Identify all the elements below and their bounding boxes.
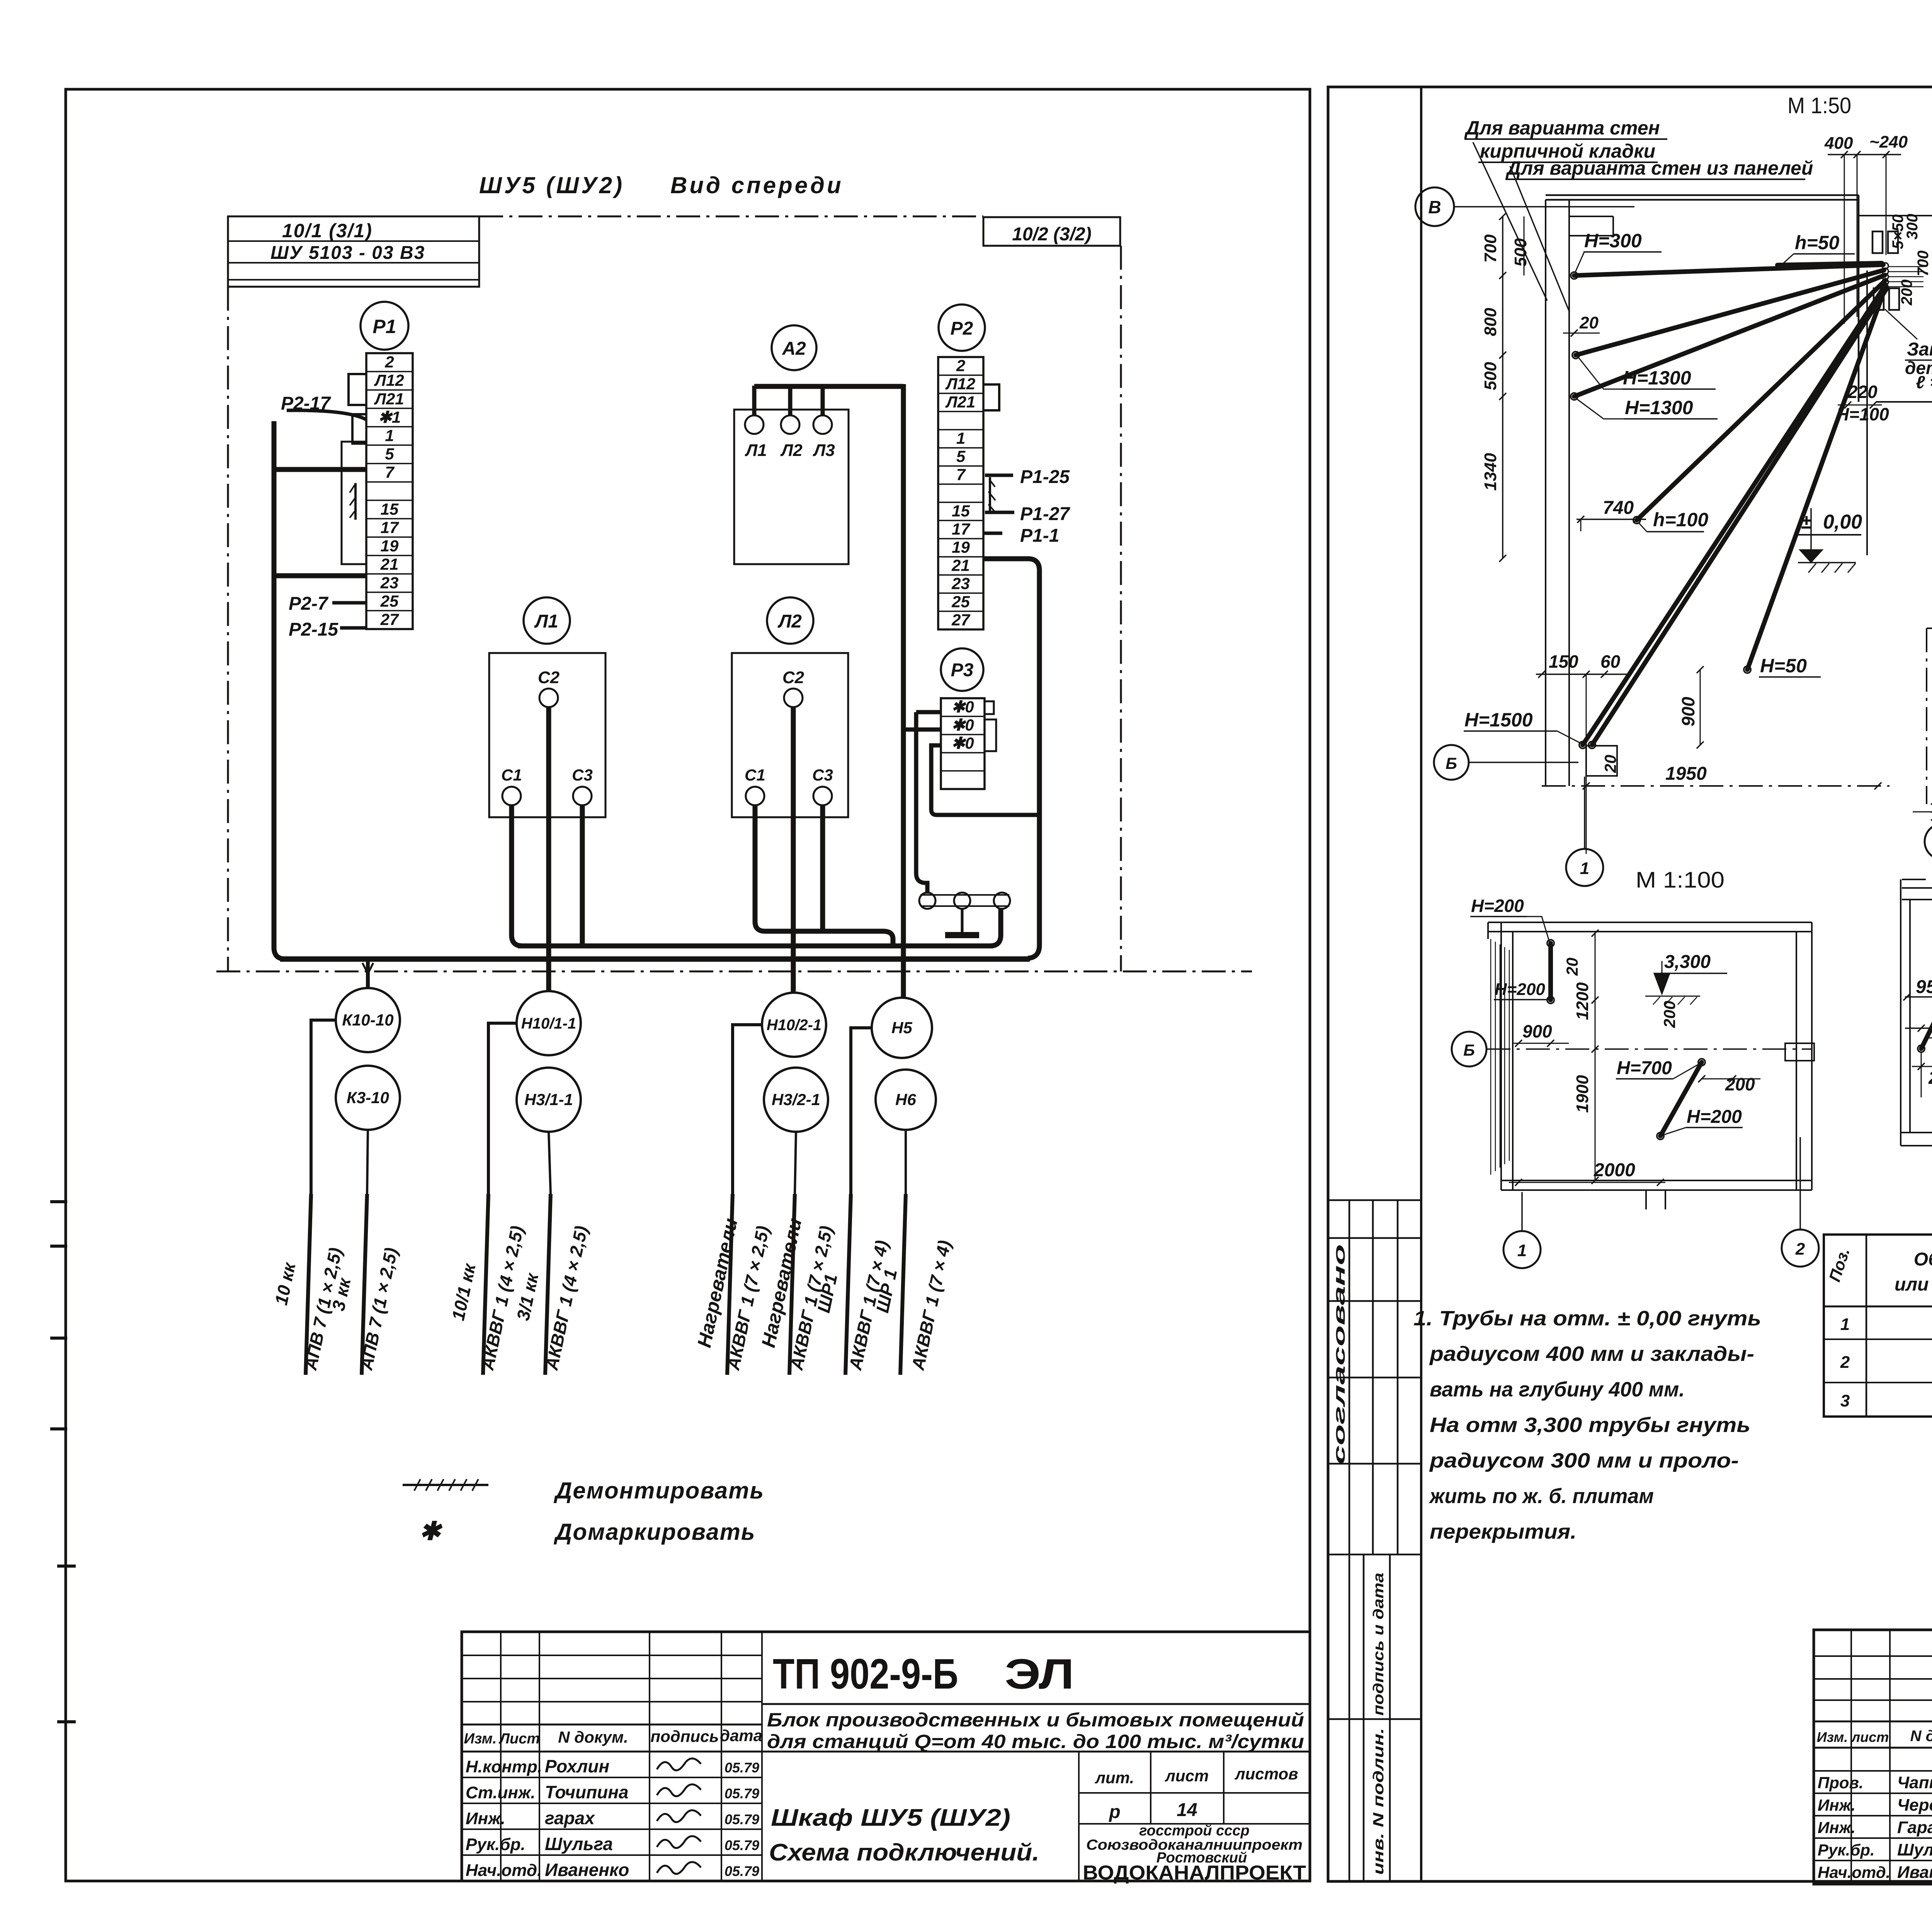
svg-text:h=100: h=100 [1653, 509, 1708, 531]
notes paragraph [1413, 1307, 1761, 1543]
svg-text:подпись: подпись [651, 1727, 719, 1745]
svg-text:✱: ✱ [419, 1517, 443, 1545]
svg-text:радиусом 300 мм и проло-: радиусом 300 мм и проло- [1429, 1449, 1739, 1472]
lamp unit A2 box [734, 410, 849, 564]
svg-text:Рук.бр.: Рук.бр. [466, 1835, 526, 1854]
svg-text:листов: листов [1235, 1765, 1298, 1783]
svg-text:1: 1 [385, 427, 394, 445]
M1:100 level 3,300 [1645, 952, 1727, 1005]
pipe H=1300 b [1574, 275, 1885, 396]
svg-text:Лист: Лист [498, 1731, 540, 1747]
M1:100 grid circle B [1452, 1032, 1486, 1066]
svg-text:Нач.отд.: Нач.отд. [466, 1861, 542, 1880]
svg-text:✱0: ✱0 [951, 698, 974, 716]
svg-text:Н=50: Н=50 [1760, 655, 1807, 677]
starter Л1 label circle [524, 597, 570, 644]
ground terminal bar [920, 894, 1009, 896]
svg-text:300: 300 [1904, 214, 1921, 240]
P1 connector bracket rows *1-1 [352, 414, 366, 444]
svg-text:05.79: 05.79 [724, 1863, 759, 1879]
svg-text:200: 200 [1725, 1074, 1755, 1094]
right title block texts [1817, 1650, 1932, 1886]
svg-text:ТП 902-9-Б: ТП 902-9-Б [773, 1650, 958, 1698]
M1:100 walls [1488, 922, 1812, 1209]
cable conductor H3/2-1 drop [789, 1194, 795, 1375]
lamp L3 [813, 415, 832, 434]
grid circles 1,2 below M1:100 [1503, 1137, 1819, 1268]
svg-text:Л2: Л2 [780, 441, 803, 460]
starter Л2 label circle [767, 597, 813, 644]
svg-text:Р1-1: Р1-1 [1020, 526, 1059, 546]
svg-text:Закладная: Закладная [1907, 339, 1932, 360]
M1:100 dims [1509, 930, 1760, 1186]
svg-text:Для варианта стен из панелей: Для варианта стен из панелей [1505, 157, 1813, 179]
svg-text:Инж.: Инж. [1818, 1796, 1855, 1814]
svg-text:500: 500 [1481, 362, 1500, 390]
svg-text:На отм 3,300 трубы гнуть: На отм 3,300 трубы гнуть [1430, 1413, 1750, 1437]
cabinet enclosure dash-dot boundary [479, 216, 983, 218]
cable K3-10 tail [367, 1130, 368, 1194]
relay P1 label circle [361, 302, 408, 350]
svg-text:ВОДОКАНАЛПРОЕКТ: ВОДОКАНАЛПРОЕКТ [1083, 1862, 1306, 1884]
svg-text:Точипина: Точипина [545, 1782, 629, 1802]
svg-text:С3: С3 [812, 766, 833, 784]
svg-text:17: 17 [952, 520, 970, 538]
terminal strip P2 [938, 357, 983, 629]
svg-text:1. Трубы на отм. ± 0,00 гну: 1. Трубы на отм. ± 0,00 гнуть [1413, 1307, 1761, 1330]
cable conductor H5 stub [845, 1194, 851, 1375]
middle detail boundary [1913, 628, 1932, 903]
svg-text:Р1: Р1 [372, 316, 396, 337]
svg-text:ШУ 5103 - 03 В3: ШУ 5103 - 03 В3 [270, 243, 425, 263]
svg-text:1340: 1340 [1481, 453, 1500, 491]
svg-text:900: 900 [1522, 1021, 1552, 1041]
svg-text:перекрытия.: перекрытия. [1430, 1520, 1577, 1543]
soglasovano table [1328, 1200, 1421, 1554]
svg-text:1950: 1950 [1665, 764, 1707, 784]
svg-text:2: 2 [956, 357, 965, 375]
svg-text:Блок производственных и бытовы: Блок производственных и бытовых помещени… [767, 1709, 1304, 1731]
svg-text:200: 200 [1898, 279, 1915, 306]
cable conductor H3/1-1 drop [545, 1194, 551, 1375]
cable conductor H10/1-1 stub [483, 1194, 488, 1375]
svg-text:05.79: 05.79 [724, 1786, 759, 1801]
svg-text:гарах: гарах [545, 1808, 595, 1828]
podpis i data strip [1328, 1554, 1421, 1881]
wire B vertical to ground bus [916, 712, 927, 894]
svg-text:Л21: Л21 [374, 389, 404, 408]
svg-text:Черепанова: Черепанова [1897, 1796, 1932, 1815]
svg-text:или тип изделия: или тип изделия [1895, 1274, 1932, 1295]
svg-text:согласовано: согласовано [1330, 1244, 1348, 1464]
svg-text:Р2-15: Р2-15 [289, 619, 338, 640]
svg-text:Ст.инж.: Ст.инж. [466, 1783, 536, 1802]
svg-text:Р1-25: Р1-25 [1020, 467, 1070, 487]
svg-text:05.79: 05.79 [724, 1837, 759, 1853]
svg-text:М 1:50: М 1:50 [1787, 93, 1851, 118]
svg-text:✱1: ✱1 [378, 408, 401, 426]
terminal strip P1 [366, 353, 413, 629]
svg-text:Схема подключений.: Схема подключений. [769, 1839, 1039, 1866]
bus1 horizontal [518, 944, 993, 949]
pipe h=100 [1637, 280, 1886, 520]
svg-text:Демонтировать: Демонтировать [553, 1478, 764, 1503]
svg-text:лист: лист [1851, 1729, 1889, 1745]
svg-text:инв. N подлин.: инв. N подлин. [1371, 1728, 1387, 1875]
svg-text:Иваненко: Иваненко [545, 1860, 629, 1880]
svg-text:С2: С2 [782, 668, 804, 687]
svg-text:Н=300: Н=300 [1584, 230, 1642, 252]
embed plates right side detail1 [1824, 133, 1932, 424]
junction arrow from bus to K10-10 [366, 959, 370, 988]
svg-text:2: 2 [1795, 1240, 1805, 1259]
svg-text:2: 2 [384, 353, 394, 371]
svg-text:Рук.бр.: Рук.бр. [1818, 1841, 1875, 1859]
cable circle H5 [872, 998, 932, 1058]
demount hatch on P2 side [988, 479, 995, 512]
detail1 walls [1546, 195, 1932, 786]
lamp L1 [745, 415, 764, 434]
svg-text:h=50: h=50 [1795, 232, 1840, 253]
svg-text:Вид спереди: Вид спереди [670, 172, 844, 198]
pipe h=50 top [1777, 263, 1882, 265]
svg-text:7: 7 [956, 466, 966, 484]
svg-text:Н10/2-1: Н10/2-1 [767, 1017, 821, 1034]
svg-text:Н=700: Н=700 [1617, 1058, 1672, 1078]
wire A2 bus riser to H5 [901, 384, 906, 998]
svg-text:Р1-27: Р1-27 [1020, 504, 1070, 524]
svg-text:17: 17 [381, 519, 399, 537]
svg-text:±: ± [1801, 511, 1812, 533]
svg-text:05.79: 05.79 [724, 1760, 759, 1776]
svg-text:✱0: ✱0 [951, 716, 974, 734]
pipe long pipe a [1583, 285, 1886, 745]
cable circle K10-10 [336, 988, 400, 1052]
wire stub P1-27 [985, 511, 1014, 514]
detail1 bottom dash-dot [1542, 785, 1889, 787]
svg-text:21: 21 [951, 556, 970, 575]
svg-text:Р2-7: Р2-7 [289, 594, 329, 614]
svg-text:10/2 (3/2): 10/2 (3/2) [1012, 224, 1091, 245]
ground symbol [961, 909, 964, 933]
svg-text:Инж.: Инж. [466, 1809, 505, 1828]
wire into P1 row 21 [274, 573, 366, 578]
cable circle K3-10 [336, 1066, 400, 1130]
bus terminal circle 3 [994, 893, 1010, 909]
svg-text:1: 1 [1840, 1315, 1850, 1334]
svg-text:Л12: Л12 [374, 371, 404, 389]
svg-text:25: 25 [380, 592, 399, 610]
svg-text:3,300: 3,300 [1664, 952, 1711, 972]
svg-text:N докум.: N докум. [558, 1728, 628, 1746]
P2 connector bracket [983, 384, 999, 410]
svg-text:А2: А2 [782, 338, 806, 359]
svg-text:Н=200: Н=200 [1495, 980, 1545, 999]
pipe H=1300 a [1576, 270, 1884, 355]
right sheet outer frame [1328, 87, 1932, 1881]
wire L1-C3 drop [580, 805, 585, 946]
svg-text:Л12: Л12 [945, 375, 976, 393]
demount hatch on P1 bracket [350, 485, 356, 518]
svg-text:Л21: Л21 [945, 393, 976, 411]
cable circle H6 [876, 1070, 936, 1130]
detail1 note dlya varianta sten kirpichnoy kladki [1464, 117, 1667, 162]
svg-text:200: 200 [1660, 1001, 1679, 1028]
svg-text:23: 23 [380, 573, 399, 592]
starter Л1 box [489, 653, 605, 817]
cabinet header box 10/2 [983, 217, 1120, 246]
centering marks on left frame [57, 1565, 76, 1568]
svg-text:Р3: Р3 [951, 660, 974, 680]
svg-text:Изм.: Изм. [1817, 1729, 1848, 1745]
P1 side bracket box rows 5-19 [342, 442, 366, 564]
svg-text:5: 5 [956, 447, 966, 466]
dims bottom detail1 [1536, 651, 1881, 854]
relay P3 label circle [941, 648, 983, 691]
svg-text:1: 1 [1517, 1241, 1527, 1260]
svg-text:2000: 2000 [1594, 1160, 1635, 1180]
svg-text:10/1 (3/1): 10/1 (3/1) [282, 220, 372, 241]
svg-text:500: 500 [1511, 238, 1530, 267]
svg-text:ℓ = 200 мм: ℓ = 200 мм [1916, 372, 1932, 392]
left title block texts [464, 1650, 1306, 1884]
svg-text:Н=1300: Н=1300 [1623, 367, 1691, 389]
svg-text:р: р [1108, 1802, 1120, 1822]
svg-text:Н6: Н6 [895, 1090, 916, 1109]
cable circle H3/1-1 [517, 1068, 581, 1132]
lamp unit A2 label circle [772, 325, 816, 370]
detail4 pipe top-left [1912, 889, 1932, 1097]
svg-text:700: 700 [1481, 234, 1500, 263]
svg-text:~240: ~240 [1869, 133, 1908, 151]
svg-text:15: 15 [952, 502, 970, 520]
svg-text:Н=1500: Н=1500 [1464, 709, 1533, 731]
left sheet frame [66, 89, 1310, 1881]
corner embed box [1586, 746, 1617, 776]
P3 connector hooks [985, 701, 994, 714]
pipe labels detail1 [1464, 230, 1855, 743]
svg-text:Н=200: Н=200 [1471, 896, 1524, 916]
relay P2 label circle [939, 304, 985, 351]
svg-text:900: 900 [1678, 697, 1698, 726]
grid circle 2 middle [1925, 824, 1932, 859]
svg-text:800: 800 [1481, 308, 1500, 336]
svg-text:Н.контр.: Н.контр. [466, 1757, 542, 1776]
svg-text:220: 220 [1847, 382, 1878, 402]
svg-text:60: 60 [1600, 651, 1621, 672]
svg-text:Н5: Н5 [891, 1019, 912, 1037]
svg-text:Чапны: Чапны [1897, 1773, 1932, 1792]
cabinet header table 10/1 [228, 216, 479, 287]
svg-text:госстрой ссср: госстрой ссср [1139, 1823, 1249, 1839]
lamp L2 [781, 415, 799, 434]
cable circle H3/2-1 [764, 1068, 828, 1132]
svg-text:Гарах: Гарах [1897, 1818, 1932, 1837]
svg-text:для станций Q=от 40 тыс. до 10: для станций Q=от 40 тыс. до 100 тыс. м³/… [767, 1731, 1304, 1752]
svg-text:✱0: ✱0 [951, 734, 974, 752]
svg-text:Рохлин: Рохлин [545, 1756, 609, 1776]
svg-text:К3-10: К3-10 [347, 1088, 389, 1107]
M1:100 door block [1785, 1043, 1814, 1061]
svg-text:жить по ж. б. плитам: жить по ж. б. плитам [1429, 1485, 1654, 1508]
svg-text:М 1:100: М 1:100 [1636, 867, 1725, 893]
svg-text:1900: 1900 [1573, 1075, 1592, 1113]
svg-text:14: 14 [1177, 1800, 1197, 1820]
svg-text:5: 5 [385, 445, 394, 463]
svg-text:N докум.: N докум. [1910, 1728, 1932, 1745]
detail4 walls [1901, 879, 1932, 1146]
level mark 0.00 detail1 [1797, 508, 1862, 573]
grid circle 1 detail1 [1584, 777, 1585, 849]
svg-text:700: 700 [1915, 250, 1932, 276]
svg-text:подпись и дата: подпись и дата [1371, 1573, 1387, 1716]
detail1 note dlya varianta sten iz paneley [1505, 157, 1813, 179]
fan knot circles [1882, 263, 1888, 269]
svg-text:15: 15 [381, 500, 399, 518]
A2 supply bus wire [754, 384, 903, 389]
svg-text:Н=1300: Н=1300 [1625, 397, 1693, 418]
detail4 bottom walls [1901, 1127, 1932, 1184]
cable H5 left stub [851, 1028, 872, 1194]
svg-text:ЭЛ: ЭЛ [1005, 1650, 1074, 1698]
parts table rows [1840, 1311, 1932, 1413]
parts table header texts [1825, 1246, 1932, 1300]
wire: left cabinet riser [274, 421, 286, 959]
svg-text:Л1: Л1 [534, 611, 558, 632]
wire stub P1-25 [985, 474, 1013, 477]
svg-text:С2: С2 [538, 668, 560, 687]
svg-text:0,00: 0,00 [1823, 511, 1862, 533]
P1 connector bracket rows L12-L21 [349, 374, 366, 405]
svg-text:лит.: лит. [1095, 1769, 1134, 1787]
svg-text:В: В [1428, 197, 1441, 217]
cable H6 tail [905, 1130, 907, 1194]
legend demount symbol [403, 1484, 488, 1486]
svg-text:Л2: Л2 [777, 611, 802, 632]
svg-text:Изм.: Изм. [464, 1731, 497, 1747]
svg-text:Нач.отд.: Нач.отд. [1818, 1863, 1890, 1881]
svg-text:Иваненко: Иваненко [1897, 1863, 1932, 1882]
grid circle B detail1 [1434, 745, 1469, 780]
wire L2-C2 down to H10/2-1 [791, 707, 796, 994]
detail4 dim line 2 [1905, 1008, 1932, 1032]
svg-text:7: 7 [385, 463, 395, 481]
svg-text:1200: 1200 [1573, 982, 1592, 1020]
terminal strip P3 [941, 698, 985, 789]
cable circle H10/1-1 [517, 991, 581, 1055]
svg-text:740: 740 [1603, 498, 1634, 518]
cable conductor K3-10 drop [362, 1194, 367, 1375]
svg-text:Л3: Л3 [813, 441, 835, 460]
svg-text:Н=200: Н=200 [1687, 1107, 1742, 1127]
left title block [462, 1632, 1310, 1881]
svg-text:С1: С1 [745, 766, 765, 784]
wire L1-C2 down to H10/1-1 [546, 707, 551, 991]
svg-text:200: 200 [1928, 1068, 1932, 1088]
svg-text:21: 21 [380, 555, 399, 573]
svg-text:Б: Б [1463, 1041, 1475, 1059]
svg-text:25: 25 [951, 593, 970, 611]
wire L2-C3 drop [820, 805, 825, 931]
svg-text:Р2: Р2 [951, 318, 973, 339]
svg-text:Н3/2-1: Н3/2-1 [772, 1090, 820, 1109]
cable H10/2-1 left stub [733, 1025, 762, 1194]
wire into P1 row 7 [274, 467, 366, 472]
svg-text:вать на глубину 400 мм.: вать на глубину 400 мм. [1430, 1378, 1685, 1401]
svg-text:Б: Б [1446, 754, 1457, 772]
svg-text:05.79: 05.79 [724, 1811, 759, 1827]
svg-text:19: 19 [952, 538, 970, 556]
cable H10/1-1 left stub [488, 1023, 517, 1194]
svg-text:Н10/1-1: Н10/1-1 [521, 1015, 576, 1032]
svg-text:27: 27 [380, 611, 399, 629]
cable K10-10 left stub [311, 1020, 336, 1194]
main bottom bus [280, 956, 1030, 962]
wire L2-C1 drop [755, 805, 893, 946]
wire into P3 cell1 [916, 710, 941, 714]
svg-text:Н=100: Н=100 [1836, 404, 1889, 424]
svg-text:Н3/1-1: Н3/1-1 [524, 1090, 573, 1109]
svg-text:23: 23 [951, 575, 970, 593]
right sheet inner border line [1420, 87, 1422, 1881]
wire P2-17 into P1 terminal *1 [287, 410, 366, 420]
svg-text:20: 20 [1601, 755, 1619, 773]
bus terminal circle 1 [919, 893, 935, 909]
bus1 right riser to terminal bar [990, 909, 1001, 946]
svg-text:Пров.: Пров. [1818, 1774, 1864, 1792]
cable conductor K10-10 stub [306, 1194, 311, 1375]
svg-text:150: 150 [1549, 651, 1578, 672]
zakladnaya detal note detail1 [1885, 309, 1932, 392]
svg-text:Инж.: Инж. [1818, 1818, 1855, 1837]
svg-text:Для варианта стен: Для варианта стен [1464, 117, 1660, 139]
wire stub P2-15 [340, 626, 366, 630]
svg-text:20: 20 [1563, 957, 1581, 976]
svg-text:радиусом 400 мм и заклады-: радиусом 400 мм и заклады- [1429, 1342, 1754, 1366]
svg-text:Р2-17: Р2-17 [281, 393, 331, 414]
svg-text:19: 19 [381, 537, 399, 555]
svg-text:3: 3 [1840, 1391, 1850, 1410]
svg-text:Домаркировать: Домаркировать [553, 1519, 756, 1545]
cable H3/2-1 tail [795, 1132, 796, 1194]
wire from P2 row19 down (C wire) [983, 559, 1039, 958]
parts table [1824, 1235, 1932, 1417]
leader lines from notes [1473, 142, 1547, 301]
detail4 dim line 1 [1903, 977, 1932, 1000]
svg-text:1: 1 [956, 429, 965, 447]
wire stub P2-7 [332, 601, 366, 605]
detail4 top dash-dot [1902, 879, 1932, 880]
svg-text:С3: С3 [572, 766, 593, 784]
svg-text:дата: дата [720, 1726, 762, 1745]
svg-text:К10-10: К10-10 [342, 1011, 393, 1029]
svg-text:27: 27 [951, 611, 970, 629]
cable H3/1-1 tail [549, 1132, 551, 1194]
wire into P3 cell2 [902, 728, 941, 732]
wire from P3 cell3 [931, 745, 1039, 815]
starter Л2 box [732, 653, 848, 817]
M1:100 vertical pipe [1470, 896, 1581, 1003]
right title block [1814, 1630, 1932, 1884]
svg-text:Шульга: Шульга [1897, 1840, 1932, 1859]
wire L1-C1 to bus1 [512, 805, 522, 946]
middle strip dividing line [1309, 89, 1311, 1881]
svg-text:20: 20 [1579, 313, 1599, 332]
cable conductor H6 drop [900, 1194, 906, 1375]
svg-text:950: 950 [1916, 977, 1932, 997]
cable circle H10/2-1 [762, 993, 826, 1057]
svg-text:400: 400 [1824, 134, 1853, 153]
